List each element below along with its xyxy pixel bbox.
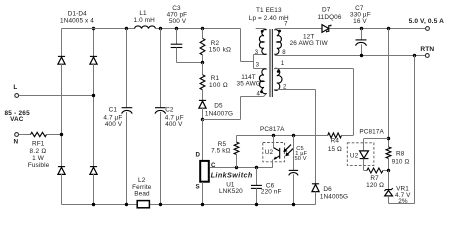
resistor R4 15 ohm: [328, 133, 342, 138]
wire 5V feedback drop: [388, 29, 390, 148]
inductor L1 1.0 mH: [135, 26, 156, 29]
T1 primary lower phase dot: [260, 90, 263, 93]
wire top rail right of L1: [156, 28, 241, 30]
opto transistor base bar: [279, 148, 281, 159]
svg-text:D1-D4: D1-D4: [68, 11, 87, 18]
opto light arrows: [285, 145, 291, 151]
zener VR1 4.7V 2%: [388, 171, 390, 190]
node R7-R8-VR1: [387, 169, 390, 172]
svg-text:RF1: RF1: [32, 140, 45, 147]
wire control row: [210, 167, 273, 169]
wire drain node to pin4 riser: [203, 119, 241, 121]
wire bridge left column lower: [61, 174, 63, 205]
svg-text:3: 3: [255, 50, 259, 56]
svg-text:U2: U2: [265, 149, 274, 156]
svg-text:T1 EE13: T1 EE13: [256, 7, 282, 14]
diode D7 11DQ06: [322, 25, 329, 33]
wire pin3b lead: [254, 68, 265, 70]
junction C6 bottom: [255, 203, 258, 206]
svg-text:Bead: Bead: [134, 191, 150, 198]
wire pin2 lead: [277, 89, 316, 91]
svg-text:VAC: VAC: [10, 116, 24, 123]
diode D3: [58, 166, 65, 168]
diode D4: [90, 166, 97, 168]
terminal L (line input): [15, 94, 19, 98]
T1 primary upper winding: [259, 30, 266, 55]
wire pin7 link: [274, 29, 276, 30]
svg-text:PC817A: PC817A: [260, 126, 285, 133]
svg-text:Lp = 2.40 mH: Lp = 2.40 mH: [249, 15, 289, 22]
svg-text:D6: D6: [323, 186, 332, 193]
junction source bottom: [201, 203, 204, 206]
junction C2 bottom: [159, 203, 162, 206]
junction C3 top: [175, 27, 178, 30]
T1 secondary winding: [274, 30, 281, 55]
junction C7 top: [360, 27, 363, 30]
wire pin4 lead: [241, 96, 264, 98]
terminal 5V output: [426, 27, 430, 31]
svg-text:Fusible: Fusible: [28, 162, 50, 169]
svg-text:1N4005G: 1N4005G: [320, 194, 348, 201]
IC U1 LNK520 body: [200, 161, 209, 182]
opto transistor emitter: [274, 156, 280, 159]
svg-text:2%: 2%: [398, 198, 408, 205]
svg-text:50 V: 50 V: [295, 156, 307, 162]
svg-text:D7: D7: [322, 7, 331, 14]
junction C5 top: [292, 134, 295, 137]
svg-text:150 kΩ: 150 kΩ: [209, 46, 232, 53]
svg-text:7: 7: [284, 21, 288, 27]
wire pin3 vertical: [253, 55, 255, 69]
wire RF1 to bridge: [47, 134, 62, 136]
wire LED anode branch: [364, 138, 389, 140]
svg-text:1.0 mH: 1.0 mH: [134, 17, 156, 24]
junction C5 bottom: [292, 203, 295, 206]
node L-bridge junction: [92, 94, 95, 97]
wire bridge right column middle: [93, 64, 95, 167]
wire RTN drop: [414, 56, 416, 204]
junction bridge top right: [92, 27, 95, 30]
svg-text:1N4005 x 4: 1N4005 x 4: [60, 18, 94, 25]
wire bridge left column middle: [61, 64, 63, 167]
junction RTN drop: [413, 54, 416, 57]
resistor R8 910 ohm: [386, 147, 391, 158]
wire LED cathode: [363, 159, 365, 171]
svg-text:1N4007G: 1N4007G: [205, 111, 233, 118]
junction C1 top: [125, 27, 128, 30]
svg-text:16 V: 16 V: [353, 18, 367, 25]
T1 bias phase dot: [277, 70, 280, 73]
wire pin2 drop: [315, 90, 317, 184]
svg-text:R7: R7: [370, 175, 379, 182]
svg-text:5.0 V, 0.5 A: 5.0 V, 0.5 A: [409, 18, 445, 25]
resistor R5 7.5k: [236, 136, 238, 143]
junction opto collector: [272, 134, 275, 137]
svg-text:PC817A: PC817A: [359, 129, 384, 136]
svg-text:120 Ω: 120 Ω: [366, 182, 384, 189]
wire rail drop to pin3: [240, 29, 242, 62]
svg-text:8.2 Ω: 8.2 Ω: [30, 148, 47, 155]
wire feedback row: [237, 135, 328, 137]
svg-text:220 nF: 220 nF: [261, 188, 282, 195]
capacitor C2 4.7uF 400V: [160, 29, 162, 108]
wire 5V rail: [330, 28, 426, 30]
svg-text:N: N: [14, 138, 19, 145]
diode D2: [90, 55, 97, 57]
svg-text:35 AWG: 35 AWG: [237, 80, 261, 87]
svg-text:RTN: RTN: [420, 46, 434, 53]
svg-text:400 V: 400 V: [165, 121, 183, 128]
resistor R7 120 ohm: [367, 168, 383, 173]
svg-text:D: D: [196, 151, 201, 158]
junction feedback top: [387, 27, 390, 30]
wire drain to U1: [202, 120, 204, 161]
wire bridge left column upper: [61, 29, 63, 57]
T1 secondary phase dot: [278, 30, 281, 33]
wire pin1 lead: [277, 68, 354, 70]
diode D6 1N4005G: [312, 183, 319, 185]
svg-text:3: 3: [256, 63, 260, 69]
opto U2 transistor box: [263, 143, 285, 162]
resistor RF1 8.2 ohm fusible: [31, 132, 47, 136]
diode D1: [58, 55, 65, 57]
svg-text:1: 1: [281, 61, 285, 67]
wire pin2 link: [274, 89, 276, 91]
svg-text:C2: C2: [165, 107, 174, 114]
node R2-R1-C3: [201, 61, 204, 64]
T1 primary upper phase dot: [261, 30, 264, 33]
junction bottom right column: [92, 203, 95, 206]
svg-text:S: S: [195, 184, 199, 191]
svg-text:R8: R8: [396, 151, 405, 158]
T1 bias winding: [274, 68, 282, 90]
opto U2 LED box: [347, 143, 374, 166]
terminal N (neutral input): [15, 133, 19, 137]
ferrite bead L2: [137, 201, 149, 208]
wire pin1 link: [274, 68, 276, 70]
T1 core: [269, 29, 271, 97]
wire bridge right column upper: [93, 29, 95, 57]
svg-text:400 V: 400 V: [105, 121, 123, 128]
capacitor C5 1uF 50V: [293, 136, 295, 171]
junction R2 top: [201, 27, 204, 30]
svg-text:R4: R4: [331, 138, 340, 145]
junction C7 bottom: [360, 54, 363, 57]
junction R5 bottom: [235, 166, 238, 169]
capacitor C6 220nF: [256, 168, 258, 186]
wire bridge right column lower: [93, 174, 95, 205]
svg-text:D5: D5: [214, 103, 223, 110]
resistor R1 100 ohm: [202, 63, 204, 75]
svg-text:910 Ω: 910 Ω: [392, 158, 410, 165]
node drain: [201, 118, 204, 121]
terminal RTN: [425, 54, 429, 58]
svg-text:LinkSwitch: LinkSwitch: [211, 170, 253, 179]
wire pin7 lead: [276, 28, 322, 30]
T1 primary lower winding: [259, 69, 266, 94]
resistor R2 150k: [202, 29, 204, 39]
svg-text:100 Ω: 100 Ω: [209, 82, 228, 89]
svg-text:4: 4: [256, 92, 260, 98]
junction LED branch: [387, 137, 390, 140]
svg-text:L: L: [13, 84, 17, 91]
svg-text:500 V: 500 V: [169, 18, 187, 25]
wire bottom rail: [62, 204, 316, 206]
capacitor C7 330uF 16V: [361, 29, 363, 40]
wire pin3a lead: [254, 54, 265, 56]
wire L to bridge: [19, 95, 94, 97]
svg-text:C1: C1: [109, 107, 118, 114]
opto LED U2: [360, 151, 369, 158]
wire RTN rail: [276, 55, 426, 57]
node N-bridge junction: [60, 133, 63, 136]
wire pin5 stub: [256, 28, 265, 30]
junction C6 top: [255, 166, 258, 169]
svg-text:LNK520: LNK520: [219, 188, 243, 195]
wire top rail left: [62, 28, 135, 30]
wire pin4 riser: [240, 97, 242, 120]
wire N to RF1: [19, 134, 31, 136]
capacitor C1 4.7uF 400V: [126, 29, 128, 108]
junction C1 bottom: [125, 203, 128, 206]
wire source to rail: [202, 182, 204, 205]
svg-text:U2: U2: [350, 153, 359, 160]
svg-text:15 Ω: 15 Ω: [328, 146, 342, 153]
junction C2 top: [159, 27, 162, 30]
wire secondary return bottom: [389, 203, 415, 205]
svg-text:11DQ06: 11DQ06: [317, 14, 341, 21]
diode D5 1N4007G: [199, 99, 206, 101]
opto transistor collector: [273, 136, 275, 148]
svg-text:7.5 kΩ: 7.5 kΩ: [211, 148, 230, 155]
capacitor C3 470pF 500V: [176, 29, 178, 45]
svg-text:26 AWG TIW: 26 AWG TIW: [290, 40, 329, 47]
